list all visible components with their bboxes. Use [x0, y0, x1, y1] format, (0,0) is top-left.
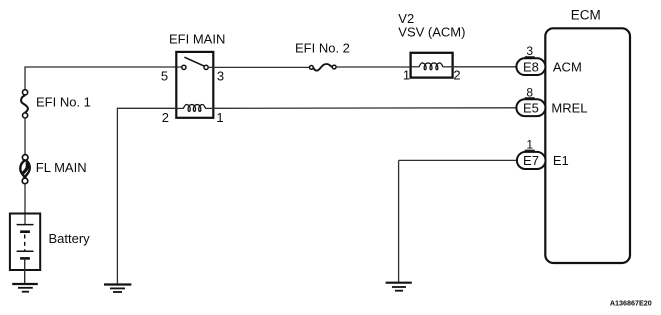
svg-text:1: 1 — [403, 68, 410, 83]
svg-text:FL MAIN: FL MAIN — [36, 160, 87, 175]
svg-text:2: 2 — [162, 110, 169, 125]
battery plate - (short thick, lower cell) — [20, 257, 30, 260]
svg-text:5: 5 — [161, 68, 168, 83]
relay contact: pin 5 terminal — [182, 65, 186, 69]
ground (E1) — [386, 283, 412, 291]
pin 1 underline — [525, 149, 535, 151]
svg-text:EFI No. 1: EFI No. 1 — [36, 95, 91, 110]
connector E7 (oval) — [517, 152, 546, 169]
VSV V2 (box) — [411, 53, 453, 78]
ground (relay coil) — [104, 285, 131, 293]
pin 3 underline — [525, 56, 535, 58]
svg-text:E1: E1 — [553, 153, 569, 168]
svg-text:ECM: ECM — [571, 7, 601, 22]
wire: relay pin1 to ECM E5 (MREL) — [213, 107, 517, 110]
svg-text:Battery: Battery — [49, 231, 91, 246]
svg-text:MREL: MREL — [551, 100, 587, 115]
fusible link FL MAIN (symbol) — [20, 155, 29, 184]
svg-text:3: 3 — [217, 68, 224, 83]
connector E5 (oval) — [516, 99, 545, 116]
battery plate + (long) — [17, 224, 34, 226]
battery plate + (long, lower cell) — [17, 250, 34, 252]
wire: fusible link to battery — [24, 184, 26, 225]
wire: E1 horizontal to E7 — [399, 159, 517, 161]
relay switch arm (open contact) — [184, 57, 204, 66]
wire: VSV internal lead pin1 — [411, 66, 420, 68]
wire: left vertical drop to EFI No.1 fuse — [24, 66, 26, 89]
svg-text:E5: E5 — [523, 100, 539, 115]
wire: relay pin 3 to EFI No.2 fuse — [208, 66, 310, 68]
svg-text:EFI No. 2: EFI No. 2 — [295, 41, 350, 56]
fuse EFI No. 2 (symbol) — [310, 64, 337, 71]
VSV solenoid coil winding — [419, 63, 443, 70]
relay coil winding — [183, 105, 205, 112]
wire: E1 vertical drop to ground — [398, 160, 400, 282]
relay contact: pin 3 terminal — [204, 65, 208, 69]
wire: relay coil to pin1 (inside box) — [206, 107, 214, 109]
relay EFI MAIN (box) — [176, 52, 213, 118]
wire: battery negative to ground — [24, 258, 26, 284]
wire: vertical drop to center ground — [116, 108, 118, 285]
battery plate - (short thick) — [20, 230, 30, 233]
svg-text:E8: E8 — [523, 59, 539, 74]
svg-text:1: 1 — [216, 110, 223, 125]
svg-text:E7: E7 — [523, 153, 539, 168]
svg-text:VSV (ACM): VSV (ACM) — [398, 25, 465, 40]
wire: fuse to VSV pin 1 — [336, 66, 411, 68]
battery internal dashed link — [24, 235, 26, 251]
battery (box) — [10, 214, 40, 271]
wire: battery feed top horizontal (node B+ to relay pin 5) — [25, 66, 182, 68]
wire: VSV internal lead pin2 — [443, 66, 453, 68]
svg-text:A136867E20: A136867E20 — [610, 299, 652, 308]
connector E8 (oval) — [516, 58, 545, 75]
pin 8 underline — [525, 97, 535, 99]
ground (battery) — [12, 284, 38, 292]
svg-text:2: 2 — [453, 68, 460, 83]
svg-text:1: 1 — [526, 138, 533, 152]
svg-text:ACM: ACM — [553, 59, 582, 74]
fuse EFI No. 1 (symbol) — [21, 90, 28, 118]
svg-text:EFI MAIN: EFI MAIN — [169, 31, 225, 46]
svg-text:3: 3 — [526, 44, 533, 58]
wire: VSV pin 2 to ECM E8 — [453, 66, 517, 68]
wire: relay coil feed (inside box, pin2 side) — [176, 107, 183, 109]
ECM (box) — [545, 28, 630, 263]
wire: fuse to fusible link — [24, 118, 26, 154]
wire: relay pin 2 to ground drop (horizontal) — [117, 107, 176, 109]
